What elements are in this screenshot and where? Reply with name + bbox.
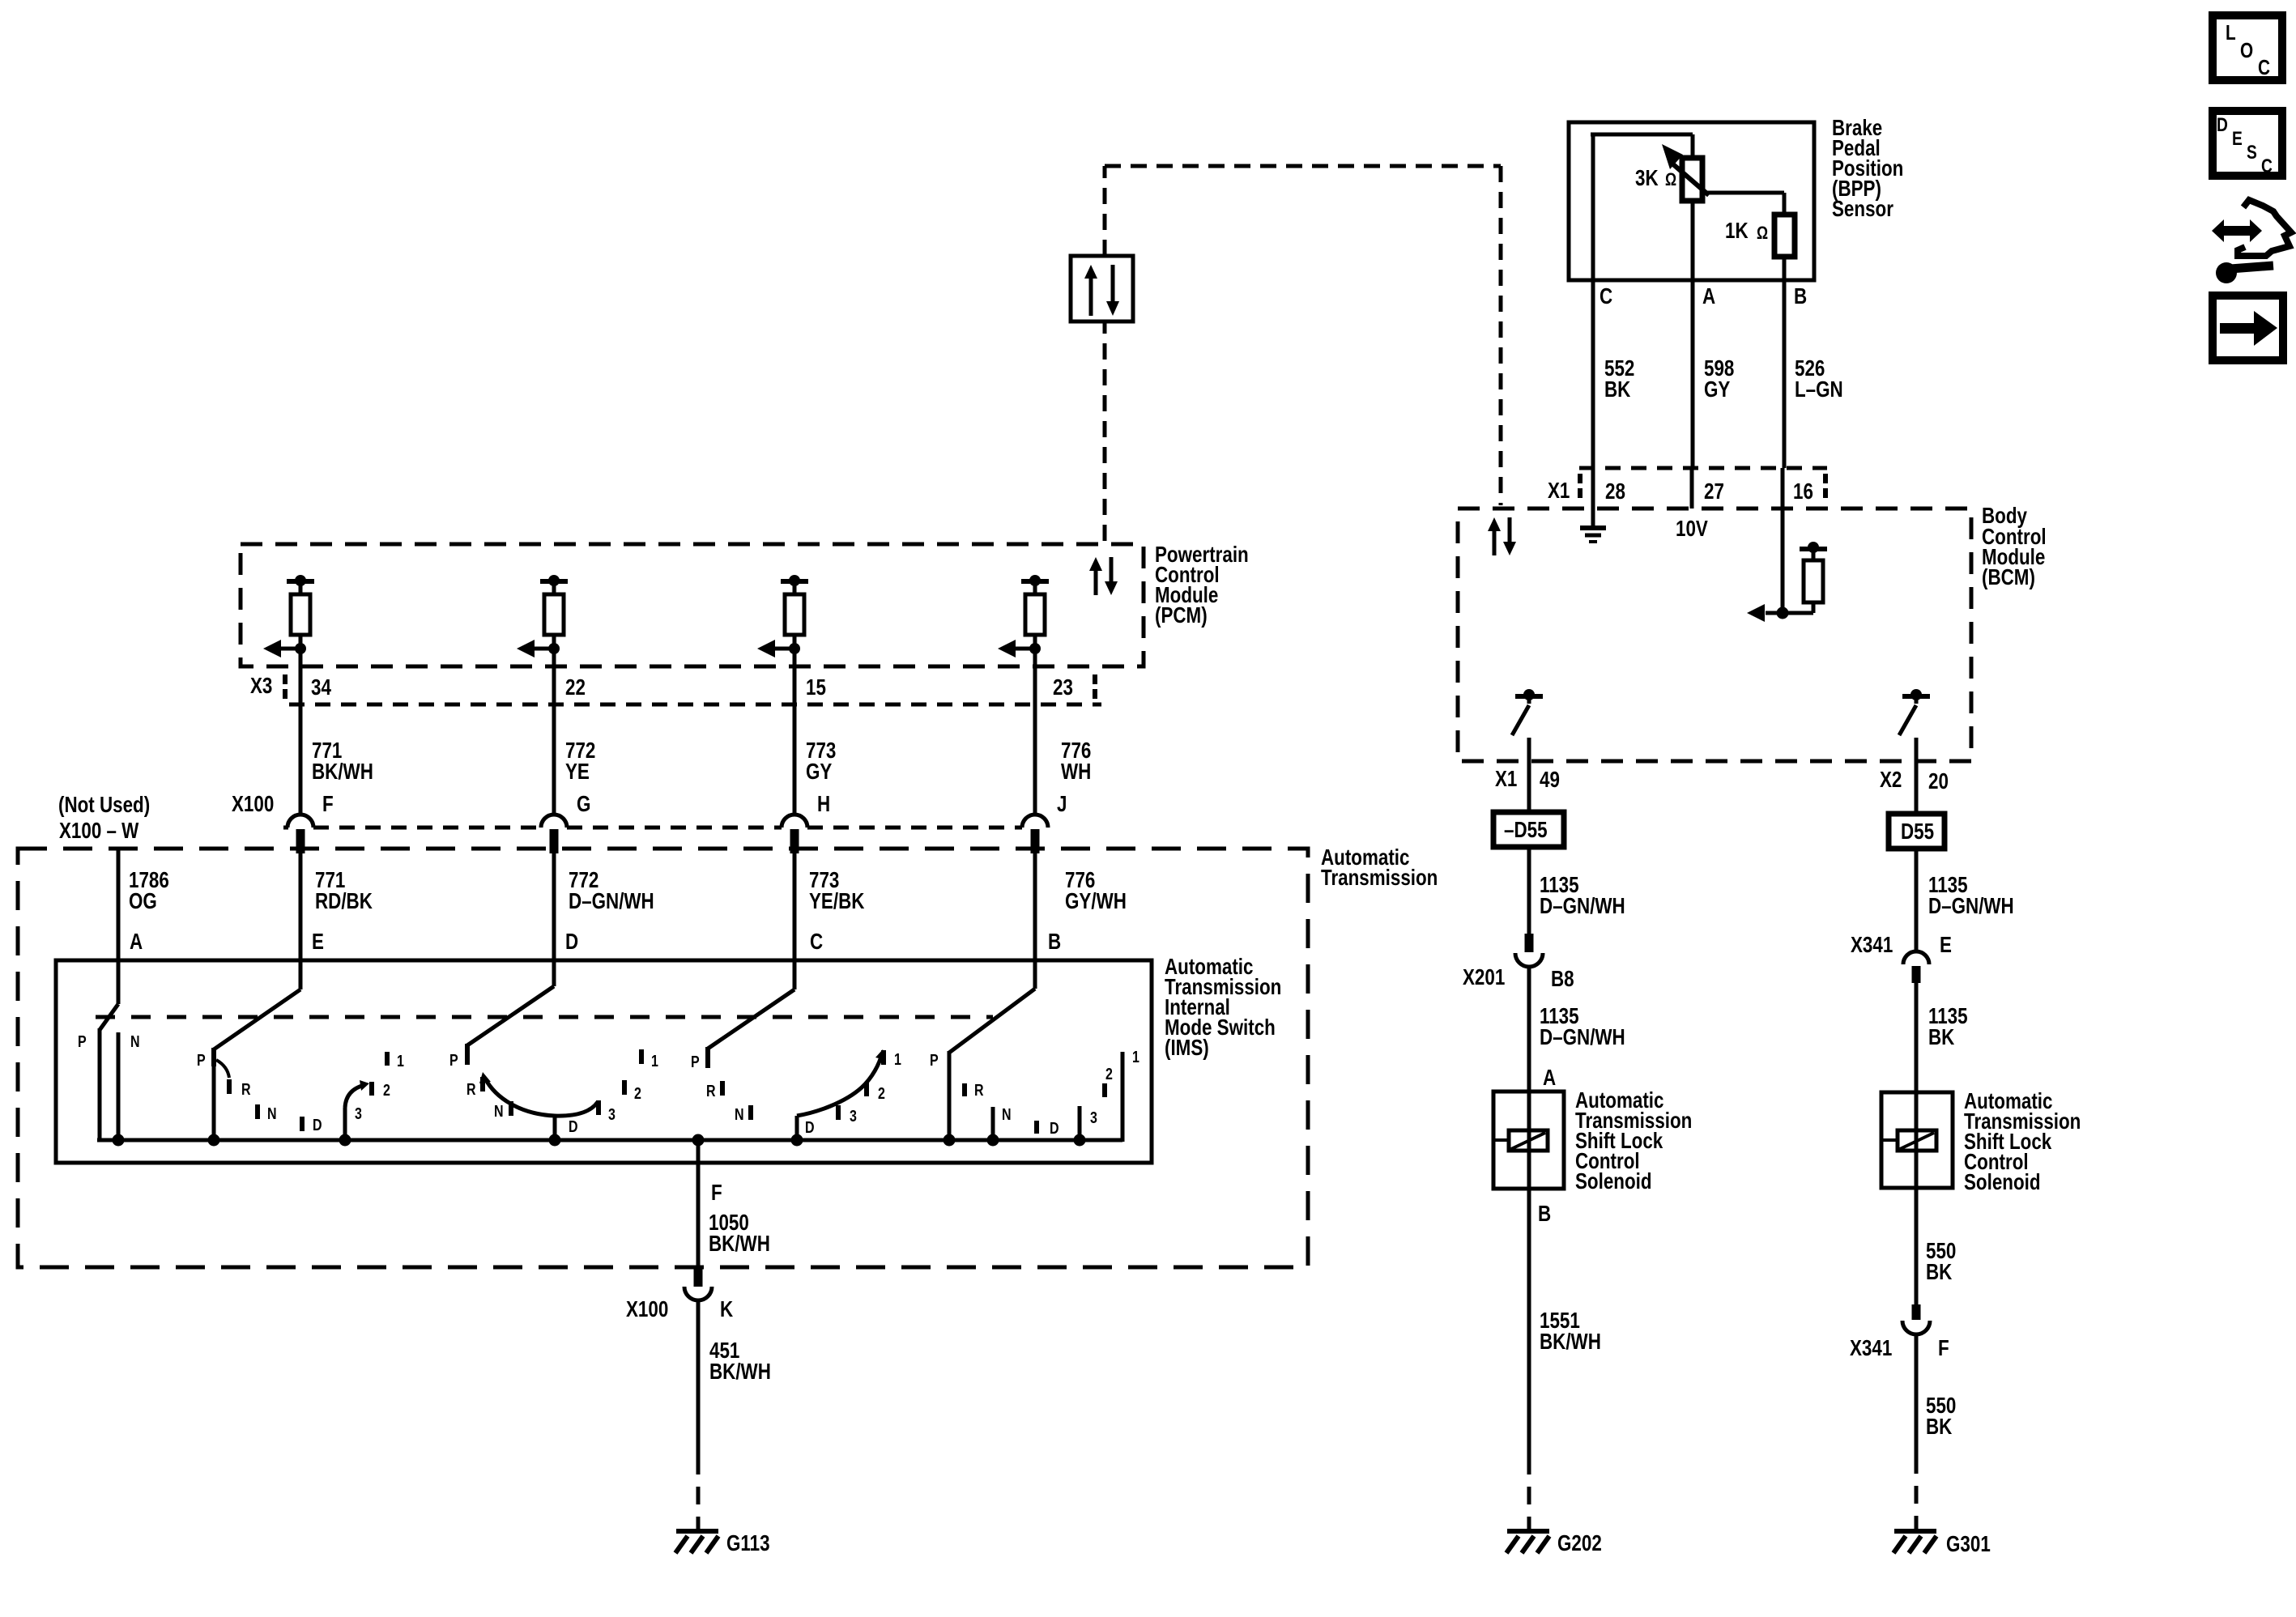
icon diagnostic wrench <box>2210 200 2291 283</box>
wire 552 BK <box>1591 280 1595 468</box>
node switch B rail junction <box>944 1134 956 1147</box>
label X201 B8 <box>1463 965 1574 992</box>
node switch B N junction <box>987 1134 999 1147</box>
label 773 YE/BK <box>809 868 865 914</box>
svg-text:N: N <box>494 1102 504 1120</box>
label 1135 D-GN/WH left upper <box>1540 873 1625 919</box>
svg-text:BK: BK <box>1926 1415 1953 1440</box>
label N switch B <box>1002 1105 1012 1123</box>
label 1135 D-GN/WH right <box>1928 873 2014 919</box>
label X3 <box>250 674 272 699</box>
wire BCM to D55 right <box>1915 761 1919 814</box>
Automatic Transmission Internal Mode Switch (IMS) box <box>56 960 1152 1163</box>
label 1551 BK/WH <box>1540 1308 1601 1355</box>
label 2 switch E <box>383 1081 390 1099</box>
label 2 switch D <box>634 1084 641 1102</box>
svg-text:X341: X341 <box>1850 1336 1892 1361</box>
wire BCM to D55 left <box>1527 761 1531 812</box>
svg-text:B: B <box>1048 930 1061 955</box>
svg-text:WH: WH <box>1061 760 1091 785</box>
svg-text:34: 34 <box>311 675 331 700</box>
svg-text:D: D <box>313 1116 322 1134</box>
svg-text:X100: X100 <box>232 792 274 817</box>
svg-text:20: 20 <box>1928 769 1949 794</box>
svg-text:D: D <box>805 1118 815 1136</box>
svg-text:15: 15 <box>806 675 826 700</box>
svg-text:X201: X201 <box>1463 965 1505 990</box>
Body Control Module (BCM) dashed box <box>1458 509 1971 761</box>
svg-text:D: D <box>2217 113 2228 136</box>
svg-text:L: L <box>2226 21 2236 45</box>
label 3 switch D <box>608 1105 616 1123</box>
svg-text:RD/BK: RD/BK <box>315 889 373 914</box>
label X100 K <box>626 1297 734 1322</box>
svg-text:2: 2 <box>878 1084 885 1102</box>
svg-text:F: F <box>1938 1336 1949 1361</box>
pin 34 label <box>311 675 331 700</box>
svg-text:–D55: –D55 <box>1504 818 1548 843</box>
contact R tick switch E <box>227 1079 232 1094</box>
svg-text:B8: B8 <box>1551 967 1574 992</box>
contact N tick switch E <box>255 1104 260 1119</box>
node rail F tap <box>692 1134 705 1147</box>
label X1 (BCM top) <box>1548 479 1570 504</box>
svg-text:22: 22 <box>565 675 586 700</box>
svg-text:G: G <box>577 792 590 817</box>
svg-text:P: P <box>78 1032 87 1050</box>
svg-text:E: E <box>2232 127 2243 150</box>
label D switch C <box>805 1118 815 1136</box>
pin B label solenoid left <box>1538 1202 1551 1227</box>
BCM serial data arrows <box>1488 517 1516 555</box>
contact 1 tick switch E <box>385 1052 390 1066</box>
label N switch A <box>130 1032 140 1050</box>
svg-text:BK: BK <box>1926 1260 1953 1285</box>
ground internal BCM pin28 <box>1580 528 1606 542</box>
svg-text:X1: X1 <box>1495 767 1517 792</box>
label D switch D <box>569 1117 578 1135</box>
svg-text:N: N <box>735 1105 744 1123</box>
BCM internal pull-up resistor <box>1783 542 1827 613</box>
svg-text:3: 3 <box>850 1107 857 1125</box>
svg-text:YE/BK: YE/BK <box>809 889 865 914</box>
contact 1 tick switch C <box>881 1050 886 1065</box>
svg-text:2: 2 <box>634 1084 641 1102</box>
svg-text:L–GN: L–GN <box>1795 377 1843 402</box>
label 776 GY/WH <box>1065 868 1127 914</box>
label 1135 D-GN/WH left lower <box>1540 1004 1625 1050</box>
label 526 L-GN <box>1795 356 1843 402</box>
pin J label <box>1057 792 1067 817</box>
Automatic Transmission Shift Lock Control Solenoid right box <box>1881 1092 1953 1188</box>
label P switch D <box>449 1051 458 1069</box>
svg-text:J: J <box>1057 792 1067 817</box>
PCM label <box>1155 543 1249 628</box>
svg-text:BK/WH: BK/WH <box>709 1232 770 1257</box>
svg-text:X2: X2 <box>1880 768 1902 793</box>
svg-text:1: 1 <box>1132 1048 1139 1066</box>
svg-text:BK: BK <box>1928 1025 1955 1050</box>
svg-text:Transmission: Transmission <box>1321 866 1438 891</box>
connector X100 pin G <box>541 815 567 853</box>
label R switch B <box>974 1081 984 1099</box>
component D55 box <box>1889 814 1945 849</box>
svg-text:N: N <box>130 1032 140 1050</box>
connector X341 pin E <box>1903 951 1929 983</box>
resistor + driver PCM pin 34 <box>263 575 314 815</box>
switch E wiper arc P-R <box>216 1060 229 1078</box>
wire 773 YE/BK below X100 <box>793 853 797 989</box>
svg-text:C: C <box>2258 56 2270 79</box>
svg-text:1: 1 <box>397 1052 404 1070</box>
label 1135 BK <box>1928 1004 1968 1050</box>
label D switch E <box>313 1116 322 1134</box>
serial data wire PCM to BCM (dashed) <box>1105 166 1501 541</box>
svg-text:X1: X1 <box>1548 479 1570 504</box>
solenoid right label <box>1964 1089 2081 1195</box>
component -D55 box <box>1493 812 1564 847</box>
label R switch D <box>466 1080 476 1098</box>
svg-text:Ω: Ω <box>1665 170 1676 189</box>
PCM serial data arrows <box>1089 557 1118 595</box>
connector X341 pin F <box>1902 1304 1930 1334</box>
wire 1135 D-GN/WH upper right <box>1915 849 1919 952</box>
pin G label <box>577 792 590 817</box>
svg-text:S: S <box>2247 141 2257 164</box>
wire 550 BK lower <box>1915 1334 1919 1529</box>
connector X100 pin K <box>684 1266 712 1300</box>
svg-text:D–GN/WH: D–GN/WH <box>1928 894 2014 919</box>
svg-text:K: K <box>720 1297 734 1322</box>
contact D tick switch B <box>1034 1121 1039 1134</box>
pin 27 label <box>1704 479 1724 504</box>
pin A label solenoid left <box>1543 1066 1556 1091</box>
svg-text:Solenoid: Solenoid <box>1575 1169 1652 1194</box>
label 772 D-GN/WH <box>569 868 654 914</box>
pin 16 label <box>1793 479 1813 504</box>
wire 1551 BK/WH <box>1527 1189 1531 1529</box>
Powertrain Control Module (PCM) dashed box <box>241 544 1144 666</box>
label N switch D <box>494 1102 504 1120</box>
label P switch E <box>197 1051 206 1069</box>
contact N line switch B <box>991 1107 995 1140</box>
svg-text:R: R <box>466 1080 476 1098</box>
label X341 E <box>1851 933 1952 958</box>
connector X201 pin B8 <box>1515 934 1543 967</box>
IMS label <box>1165 955 1281 1061</box>
BCM output driver switch X1-49 <box>1512 689 1543 761</box>
IMS mechanical linkage dashed line <box>96 1015 993 1019</box>
svg-text:49: 49 <box>1540 768 1560 793</box>
label 451 BK/WH <box>709 1338 771 1385</box>
wire 1135 D-GN/WH lower left <box>1527 967 1531 1091</box>
node BCM pin16 junction <box>1777 607 1789 619</box>
pin H label <box>817 792 830 817</box>
svg-text:D: D <box>1050 1119 1059 1137</box>
svg-text:X3: X3 <box>250 674 272 699</box>
icon DESC box <box>2213 111 2282 177</box>
connector X100 pin F <box>288 815 313 853</box>
wire wiper to 1K <box>1707 193 1784 216</box>
label N switch C <box>735 1105 744 1123</box>
connector X1 dotted line <box>1579 468 1827 498</box>
svg-text:3: 3 <box>608 1105 616 1123</box>
node switch E rail junction 2 <box>339 1134 351 1147</box>
svg-text:F: F <box>322 792 334 817</box>
pin C label <box>1600 284 1612 309</box>
pin 15 label <box>806 675 826 700</box>
contact D tick switch E <box>300 1117 305 1131</box>
contact 2 tick switch C <box>864 1082 869 1096</box>
connector X3 <box>285 674 1101 704</box>
svg-text:BK/WH: BK/WH <box>312 760 373 785</box>
solenoid left label <box>1575 1088 1692 1194</box>
svg-text:D–GN/WH: D–GN/WH <box>1540 894 1625 919</box>
svg-text:H: H <box>817 792 830 817</box>
svg-text:N: N <box>267 1104 277 1122</box>
svg-text:E: E <box>1940 933 1952 958</box>
svg-text:1: 1 <box>651 1052 658 1070</box>
pin D label IMS <box>565 930 578 955</box>
svg-text:X341: X341 <box>1851 933 1893 958</box>
switch D wiper arc R to 3 <box>479 1072 598 1116</box>
ground G113 <box>675 1531 718 1553</box>
label 1 switch D <box>651 1052 658 1070</box>
wire 550 BK upper <box>1915 1188 1919 1304</box>
BCM label <box>1982 504 2047 590</box>
label G113 <box>726 1531 770 1556</box>
svg-text:3K: 3K <box>1635 166 1659 191</box>
label wire 776 WH <box>1061 738 1091 785</box>
wire 598 GY <box>1691 201 1695 468</box>
switch B P vertical to rail <box>948 1051 952 1140</box>
label 3 switch B <box>1090 1108 1097 1126</box>
label P switch B <box>930 1051 939 1069</box>
contact 2 tick switch E <box>369 1082 374 1096</box>
wire 526 L-GN <box>1783 257 1784 509</box>
label (Not Used) X100-W <box>58 793 150 844</box>
svg-text:G301: G301 <box>1946 1532 1991 1557</box>
Automatic Transmission dashed box <box>18 849 1308 1267</box>
svg-text:P: P <box>197 1051 206 1069</box>
label X341 F <box>1850 1336 1949 1361</box>
switch A wiper (P-N) <box>100 1004 118 1142</box>
contact N tick switch D <box>509 1101 513 1116</box>
label 1 switch B <box>1132 1048 1139 1066</box>
svg-text:1K: 1K <box>1725 219 1749 244</box>
svg-text:X100: X100 <box>626 1297 668 1322</box>
label R switch E <box>241 1080 251 1098</box>
label P switch C <box>691 1053 700 1070</box>
svg-text:1: 1 <box>894 1050 901 1068</box>
label wire 773 GY <box>806 738 836 785</box>
svg-text:R: R <box>706 1082 716 1100</box>
svg-text:E: E <box>312 930 324 955</box>
label G301 <box>1946 1532 1991 1557</box>
svg-text:O: O <box>2240 39 2253 62</box>
svg-text:27: 27 <box>1704 479 1724 504</box>
switch B wiper arm to P <box>949 989 1035 1053</box>
label N switch E <box>267 1104 277 1122</box>
svg-text:D: D <box>569 1117 578 1135</box>
label P switch A <box>78 1032 87 1050</box>
svg-text:D–GN/WH: D–GN/WH <box>1540 1025 1625 1050</box>
pin 23 label <box>1053 675 1073 700</box>
resistor + driver PCM pin 23 <box>998 575 1049 815</box>
svg-text:Solenoid: Solenoid <box>1964 1170 2041 1195</box>
node switch E rail junction <box>208 1134 220 1147</box>
switch E second wiper from rail <box>345 1080 369 1142</box>
wire 776 GY/WH below X100 <box>1033 853 1037 989</box>
svg-text:B: B <box>1538 1202 1551 1227</box>
node switch C rail junction <box>791 1134 803 1147</box>
svg-text:(PCM): (PCM) <box>1155 603 1208 628</box>
pin B label <box>1794 284 1807 309</box>
icon LOC box <box>2213 15 2282 80</box>
svg-text:BK: BK <box>1604 377 1631 402</box>
BCM internal arrow left <box>1747 604 1783 622</box>
wire 1050 BK/WH pin F <box>696 1140 701 1266</box>
wire 451 BK/WH <box>696 1300 701 1529</box>
svg-text:C: C <box>1600 284 1612 309</box>
pin E label IMS <box>312 930 324 955</box>
contact R tick switch C <box>720 1081 725 1096</box>
svg-text:BK/WH: BK/WH <box>709 1360 771 1385</box>
svg-text:3: 3 <box>1090 1108 1097 1126</box>
svg-text:(BCM): (BCM) <box>1982 565 2035 590</box>
svg-text:BK/WH: BK/WH <box>1540 1330 1601 1355</box>
svg-text:G202: G202 <box>1557 1531 1602 1556</box>
contact 3 line switch B <box>1078 1106 1082 1140</box>
wire 771 RD/BK below X100 <box>299 853 303 989</box>
label 3 switch C <box>850 1107 857 1125</box>
svg-text:P: P <box>930 1051 939 1069</box>
svg-text:GY/WH: GY/WH <box>1065 889 1127 914</box>
svg-text:F: F <box>711 1181 722 1206</box>
ground G202 <box>1506 1531 1549 1553</box>
svg-text:C: C <box>2261 155 2273 177</box>
svg-text:YE: YE <box>565 760 590 785</box>
svg-text:16: 16 <box>1793 479 1813 504</box>
connector X100 pin H <box>782 815 807 853</box>
contact N tick switch C <box>748 1105 753 1120</box>
contact 1 tick switch D <box>639 1049 644 1064</box>
node switch A rail junction <box>113 1134 125 1147</box>
resistor 1K <box>1774 215 1795 257</box>
Brake Pedal Position (BPP) Sensor box <box>1569 122 1814 280</box>
pin A label IMS <box>130 930 143 955</box>
node switch B 3 junction <box>1074 1134 1086 1147</box>
label 598 GY <box>1704 356 1734 402</box>
wire 1135 BK <box>1915 983 1919 1092</box>
svg-text:23: 23 <box>1053 675 1073 700</box>
svg-text:3: 3 <box>355 1104 362 1122</box>
svg-text:B: B <box>1794 284 1807 309</box>
contact R tick switch D <box>480 1077 485 1091</box>
switch C D contact to rail <box>795 1116 799 1142</box>
potentiometer 3K <box>1682 158 1702 201</box>
svg-text:A: A <box>1702 284 1715 309</box>
svg-text:R: R <box>241 1080 251 1098</box>
switch E wiper arm to P <box>214 989 300 1066</box>
Automatic Transmission label <box>1321 845 1438 891</box>
wire 772 D-GN/WH below X100 <box>552 853 556 986</box>
svg-text:A: A <box>1543 1066 1556 1091</box>
label 2 switch B <box>1105 1065 1113 1083</box>
svg-text:2: 2 <box>383 1081 390 1099</box>
pin F label <box>322 792 334 817</box>
label 1 switch E <box>397 1052 404 1070</box>
3K ohm label <box>1635 166 1676 191</box>
svg-text:D: D <box>565 930 578 955</box>
svg-text:G113: G113 <box>726 1531 770 1556</box>
svg-text:28: 28 <box>1605 479 1625 504</box>
pin 22 label <box>565 675 586 700</box>
label 550 BK lower <box>1926 1394 1956 1440</box>
label 1786 OG <box>129 868 169 914</box>
wire 1786 OG (pin A) <box>117 849 121 1004</box>
IMS common rail wire <box>97 1138 1122 1143</box>
svg-text:GY: GY <box>1704 377 1730 402</box>
wire pin28 stub <box>1591 468 1595 528</box>
icon arrow box <box>2213 296 2283 360</box>
label 1050 BK/WH <box>709 1211 770 1257</box>
label R switch C <box>706 1082 716 1100</box>
label X1 49 <box>1495 767 1560 793</box>
label 3 switch E <box>355 1104 362 1122</box>
svg-text:D55: D55 <box>1901 819 1934 845</box>
pin B label IMS <box>1048 930 1061 955</box>
svg-text:Sensor: Sensor <box>1832 197 1893 222</box>
svg-text:(IMS): (IMS) <box>1165 1036 1209 1061</box>
serial data symbol box <box>1071 256 1133 321</box>
connector X100 dotted line <box>283 826 1022 830</box>
svg-text:P: P <box>691 1053 700 1070</box>
label 771 RD/BK <box>315 868 373 914</box>
wire BPP internal C to pot <box>1591 134 1693 280</box>
svg-text:(Not Used): (Not Used) <box>58 793 150 818</box>
node switch D rail junction <box>549 1134 561 1147</box>
label X2 20 <box>1880 768 1949 794</box>
1K ohm label <box>1725 219 1768 244</box>
wire 1135 D-GN/WH upper left <box>1527 847 1531 934</box>
svg-text:2: 2 <box>1105 1065 1113 1083</box>
pot wiper arrow <box>1662 144 1709 195</box>
svg-text:D–GN/WH: D–GN/WH <box>569 889 654 914</box>
label 552 BK <box>1604 356 1634 402</box>
Automatic Transmission Shift Lock Control Solenoid left box <box>1493 1091 1564 1189</box>
BPP sensor label <box>1832 116 1903 222</box>
pin 28 label <box>1605 479 1625 504</box>
pin F label <box>711 1181 722 1206</box>
pin A label <box>1702 284 1715 309</box>
pin C label IMS <box>810 930 823 955</box>
contact 2 tick switch B <box>1102 1083 1107 1097</box>
label 550 BK upper <box>1926 1239 1956 1285</box>
contact 1 line switch B <box>1121 1052 1125 1142</box>
svg-text:R: R <box>974 1081 984 1099</box>
label wire 771 BK/WH <box>312 738 373 785</box>
wire 526 L-GN inside BCM <box>1781 509 1785 613</box>
contact 2 tick switch D <box>622 1080 627 1095</box>
connector X100 pin J <box>1022 815 1048 853</box>
svg-text:C: C <box>810 930 823 955</box>
svg-text:10V: 10V <box>1676 517 1708 542</box>
BCM output driver switch X2-20 <box>1899 689 1930 761</box>
svg-text:N: N <box>1002 1105 1012 1123</box>
switch D arc to rail wire <box>553 1116 557 1140</box>
switch E P vertical to rail <box>212 1066 216 1140</box>
